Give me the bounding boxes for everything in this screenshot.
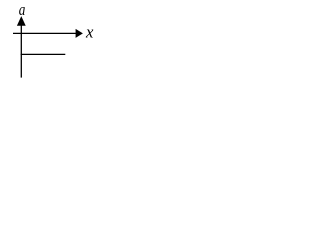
svg-text:x: x — [85, 23, 94, 42]
svg-text:a: a — [19, 0, 26, 19]
